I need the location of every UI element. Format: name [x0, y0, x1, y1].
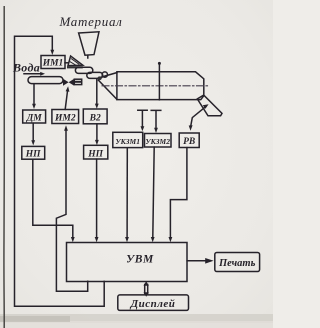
nozzle [74, 79, 81, 84]
probe 2 (to УКЗМ2) [151, 110, 161, 127]
printer Печать [215, 253, 260, 272]
page edge line [3, 6, 5, 328]
funnel (hopper) [79, 32, 99, 55]
wire УВМ to ИМ2 [56, 131, 87, 291]
converter НП left [22, 146, 45, 159]
feeder tray 2 [87, 72, 103, 78]
svg-text:НП: НП [87, 149, 103, 159]
display Дисплей [118, 295, 189, 311]
probe 1 (to УКЗМ1) [138, 110, 147, 126]
wire НП-right to УВМ [96, 159, 98, 237]
wire НП-left to УВМ [33, 159, 73, 237]
svg-text:Материал: Материал [58, 14, 122, 29]
drum axis (dash-dot) [102, 85, 210, 87]
discharge chute [197, 95, 222, 116]
link ИМ1 to gate [65, 62, 68, 64]
wire feeder to В2 [96, 79, 98, 104]
unit УКЗМ1 [113, 132, 143, 147]
cone hub blob [98, 76, 102, 80]
svg-text:РВ: РВ [183, 137, 195, 147]
sensor ДМ [23, 110, 46, 123]
converter НП right [84, 145, 108, 159]
drum cone [99, 73, 117, 100]
svg-text:УКЗМ2: УКЗМ2 [145, 137, 170, 146]
wire pipe to ДМ [33, 84, 35, 104]
water pipe [28, 77, 63, 84]
feeder outlet circle [102, 72, 107, 77]
svg-text:ИМ2: ИМ2 [54, 113, 76, 123]
water inlet arrow [24, 73, 42, 75]
unit УКЗМ2 [145, 134, 172, 148]
wire УВМ to Печать [187, 260, 206, 262]
valve (bowtie) [63, 79, 69, 86]
svg-text:Дисплей: Дисплей [130, 298, 176, 310]
funnel outlet tick [87, 55, 89, 58]
svg-text:УВМ: УВМ [126, 254, 154, 266]
svg-text:Печать: Печать [218, 258, 256, 269]
display link (double arrow) [145, 285, 148, 294]
sensor В2 [83, 109, 107, 124]
actuator ИМ2 [52, 110, 79, 124]
svg-text:НП: НП [25, 150, 41, 160]
feeder tray 1 [75, 67, 92, 73]
gate flap (triangle) [68, 56, 83, 66]
svg-text:ДМ: ДМ [26, 113, 42, 123]
svg-text:Вода: Вода [12, 61, 40, 75]
svg-text:В2: В2 [89, 113, 101, 123]
svg-text:УКЗМ1: УКЗМ1 [115, 137, 140, 146]
chute arrow [191, 107, 206, 126]
wire УКЗМ2 to УВМ [153, 147, 154, 237]
svg-text:ИМ1: ИМ1 [42, 59, 64, 69]
scan shadow bottom-left [0, 314, 273, 323]
wire ИМ2 to valve [65, 91, 67, 109]
wire УВМ to ИМ1 [15, 36, 105, 306]
drum loading line [158, 64, 160, 100]
wire РВ to УВМ [170, 148, 187, 237]
wire ДМ to НП [32, 123, 34, 140]
unit РВ [179, 133, 199, 148]
label Материал [58, 14, 122, 29]
label Вода [12, 61, 40, 75]
computer УВМ [67, 243, 188, 282]
wire УКЗМ1 to УВМ [126, 148, 128, 237]
actuator ИМ1 [41, 56, 65, 69]
drum body [117, 72, 204, 100]
wire В2 to НП [96, 124, 98, 140]
gate bar [67, 66, 83, 68]
